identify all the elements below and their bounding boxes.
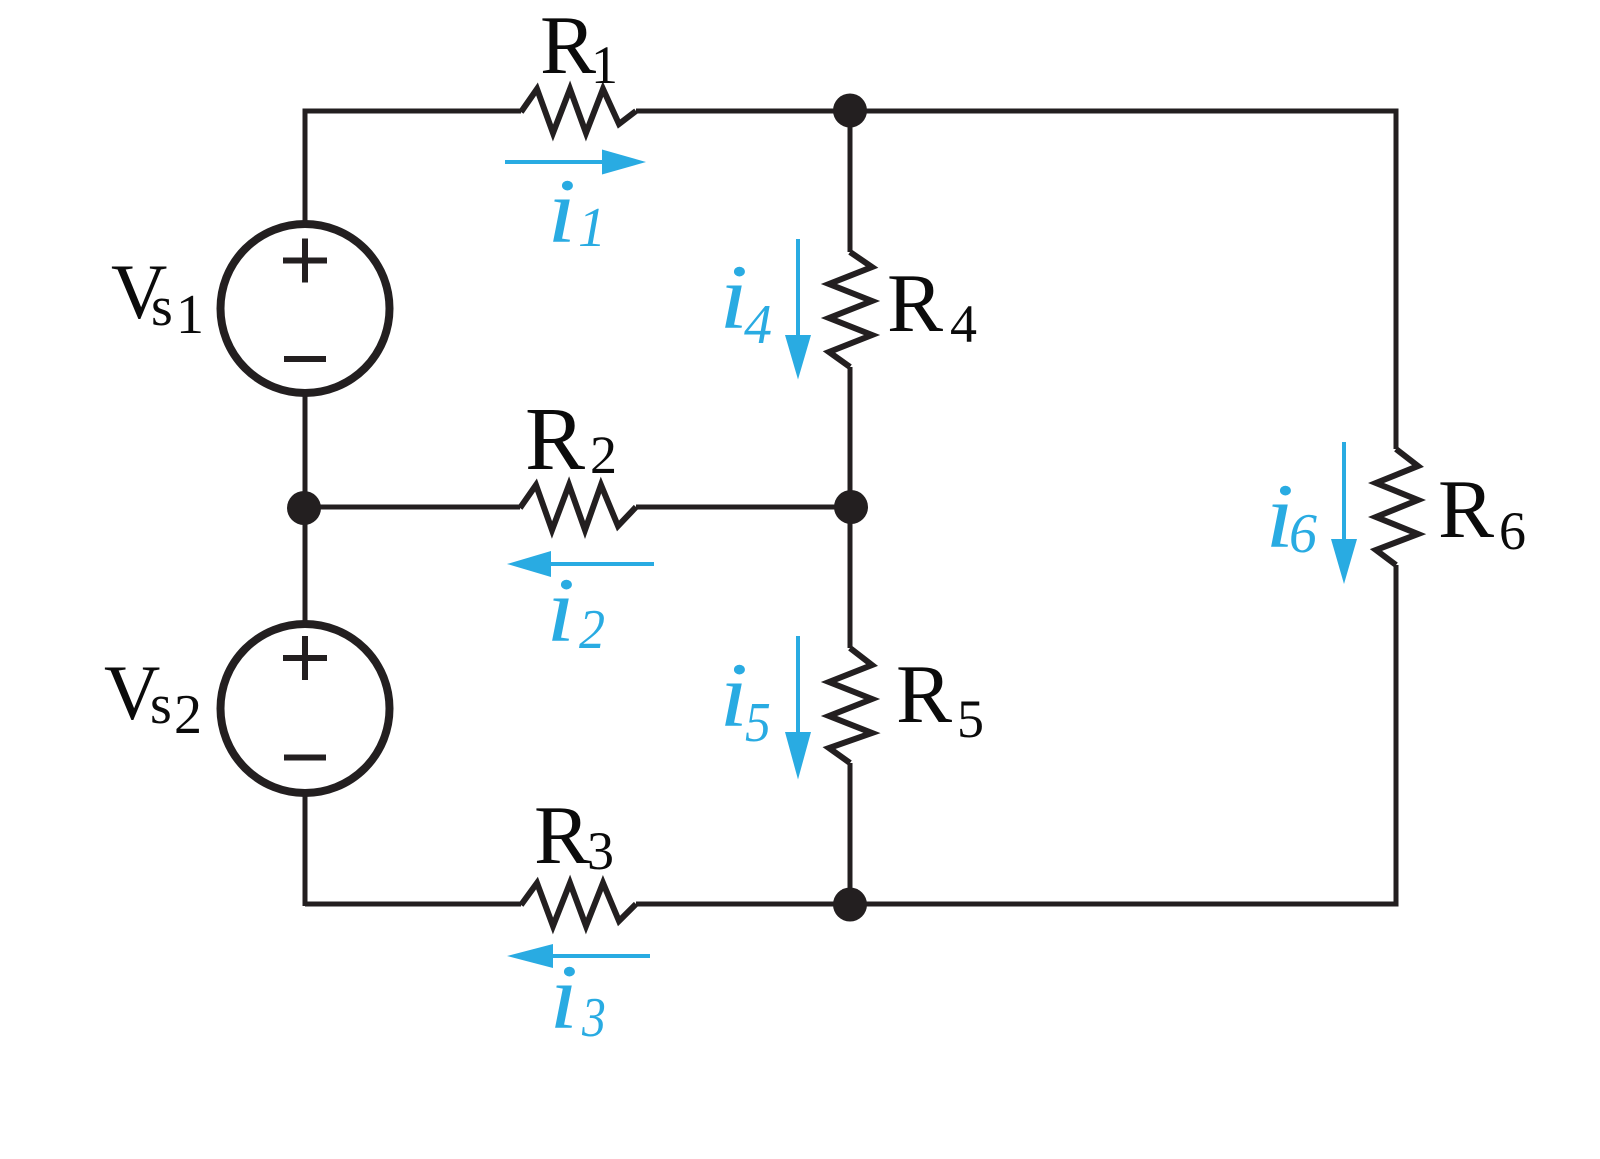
- svg-text:i: i: [547, 161, 576, 263]
- svg-text:6: 6: [1499, 501, 1526, 561]
- svg-text:2: 2: [590, 425, 617, 485]
- svg-text:i: i: [546, 560, 575, 662]
- svg-text:R: R: [887, 257, 943, 350]
- svg-text:2: 2: [579, 598, 605, 660]
- svg-text:3: 3: [581, 988, 606, 1049]
- svg-text:s: s: [150, 674, 172, 736]
- svg-text:R: R: [1438, 463, 1494, 556]
- svg-text:i: i: [719, 645, 748, 747]
- svg-text:3: 3: [587, 821, 614, 881]
- svg-text:R: R: [896, 648, 952, 741]
- svg-text:6: 6: [1289, 503, 1317, 565]
- svg-text:1: 1: [176, 284, 204, 346]
- svg-text:1: 1: [591, 35, 618, 95]
- svg-text:2: 2: [174, 684, 202, 746]
- svg-text:R: R: [525, 390, 585, 489]
- svg-text:5: 5: [745, 691, 771, 753]
- svg-text:1: 1: [578, 197, 606, 259]
- svg-text:4: 4: [950, 294, 977, 354]
- svg-text:R: R: [534, 789, 590, 882]
- svg-text:i: i: [549, 947, 578, 1049]
- svg-text:4: 4: [744, 294, 772, 356]
- svg-text:s: s: [151, 276, 173, 338]
- svg-text:5: 5: [957, 689, 984, 749]
- svg-text:R: R: [540, 0, 596, 92]
